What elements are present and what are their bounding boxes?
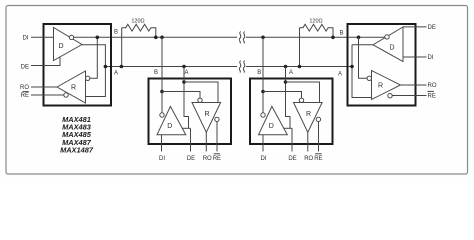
wire A drop into U2 [184,67,189,129]
receiver enable bubble U3 [316,117,320,121]
wire A bus left segment [105,66,237,68]
label RE-bar U3 [314,154,322,162]
svg-text:DE: DE [21,64,29,70]
wire DE pin U2 [190,128,192,151]
receiver B-input bubble U1 [86,76,90,80]
svg-text:B: B [114,30,118,36]
wire RE pin U1 [31,94,64,96]
resistor R1 120ohm [122,24,156,66]
driver output bubble U3 [261,113,265,117]
receiver enable bubble U1 [64,93,68,97]
svg-text:DI: DI [23,35,29,41]
svg-text:A: A [289,70,293,76]
wire RE pin U4 [392,95,426,97]
receiver R (U3) [294,103,323,133]
node R2 to B [331,36,335,40]
node A junction U4 [350,65,354,69]
wire A drop into U3 [286,67,291,129]
svg-text:DI: DI [261,156,267,162]
svg-text:DE: DE [288,156,296,162]
transceiver U1 box (left) [44,24,112,106]
label RE-bar U2 [213,154,221,162]
node R1 to A [120,65,124,69]
receiver B-input bubble U2 [198,98,202,102]
svg-text:B: B [339,31,343,37]
node B branch U3 [261,90,265,94]
svg-text:A: A [184,70,188,76]
svg-text:RE: RE [314,156,322,162]
transceiver U3 box (bottom middle-right) [250,79,333,145]
driver D output bubble (B) [69,35,73,39]
receiver R (U1) [57,71,86,103]
receiver R (U2) [192,103,221,133]
node B junction U1 [96,36,100,40]
wire B bus right segment [246,36,385,38]
transceiver U4 box (right) [348,24,416,106]
svg-text:R: R [306,111,311,118]
wire RO pin U2 [205,132,207,151]
wire driver A output U1 [82,45,105,97]
svg-text:R: R [205,111,210,118]
svg-text:RO: RO [203,156,212,162]
node A drop U2 [182,65,186,69]
svg-text:DE: DE [428,25,436,31]
resistor R2 120ohm [300,24,334,66]
receiver B-input bubble U4 [367,76,371,80]
label RE-bar U4 [428,91,436,99]
receiver B-input bubble U3 [299,98,303,102]
svg-text:D: D [390,44,395,51]
wire RO pin U1 [31,86,57,88]
node A branch U3 [284,80,288,84]
wire RO pin U4 [401,84,427,86]
svg-text:DI: DI [159,156,165,162]
driver D (U1) [54,28,83,61]
wire receiver B input U1 [90,37,97,78]
svg-text:D: D [59,43,64,50]
driver A output bar U2 [182,127,190,129]
svg-text:A: A [338,72,342,78]
node B drop U2 [160,36,164,40]
node B drop U3 [261,36,265,40]
svg-text:DI: DI [428,55,434,61]
svg-text:R: R [378,83,383,90]
svg-text:120Ω: 120Ω [131,18,144,24]
svg-text:RO: RO [428,83,437,89]
receiver enable bubble U2 [215,117,219,121]
driver D (U2) [157,106,186,134]
wire B to receiver U2 [162,92,200,99]
driver D (U3) [259,106,288,134]
driver D (U4) [373,27,403,62]
svg-text:RE: RE [428,94,436,100]
transceiver U2 box (bottom middle-left) [149,79,232,145]
wire B drop into U3 [262,37,264,113]
driver A output bar U3 [284,127,292,129]
wire B to receiver U3 [263,92,302,99]
wire driver A output U4 [352,45,373,98]
driver D output bubble (U4) [385,35,389,39]
wire DI pin U2 [161,135,163,152]
label RE-bar U1 [21,92,29,100]
wire A to receiver U2 [184,82,218,103]
svg-text:RE: RE [213,156,221,162]
svg-text:RE: RE [21,93,29,99]
wire RE pin U2 [216,122,218,152]
node A branch U2 [182,80,186,84]
svg-text:A: A [114,71,118,77]
break marks on B line [239,32,245,44]
wire DI pin U3 [262,135,264,152]
node R1 to B [154,36,158,40]
break marks on A line [239,61,245,73]
wire DI pin U1 [31,36,53,38]
receiver enable bubble U4 [388,94,392,98]
node A junction U1 [104,65,108,69]
wire DE pin U4 [403,26,427,28]
svg-text:D: D [269,123,274,130]
driver output bubble U2 [160,113,164,117]
svg-text:R: R [71,85,76,92]
wire DE pin U3 [291,128,293,151]
receiver R (U4) [372,71,401,100]
svg-text:B: B [257,70,261,76]
wire RO pin U3 [307,132,309,151]
node B branch U2 [160,90,164,94]
wire RE pin U3 [318,122,320,152]
wire receiver B input U4 [359,37,368,78]
node R2 to A [298,65,302,69]
svg-text:B: B [154,70,158,76]
svg-text:120Ω: 120Ω [309,18,322,24]
svg-text:RO: RO [304,156,313,162]
svg-text:D: D [167,123,172,130]
svg-text:DE: DE [187,156,195,162]
wire B drop into U2 [161,37,163,113]
wire DI pin U4 [403,56,427,58]
node B junction U4 [357,36,361,40]
wire B bus left segment [74,36,237,38]
wire A to receiver U3 [286,82,320,103]
node A drop U3 [284,65,288,69]
svg-text:RO: RO [20,85,29,91]
svg-text:MAX1487: MAX1487 [60,145,94,154]
wire A bus right segment [246,66,352,68]
wire DE pin U1 [31,57,60,65]
